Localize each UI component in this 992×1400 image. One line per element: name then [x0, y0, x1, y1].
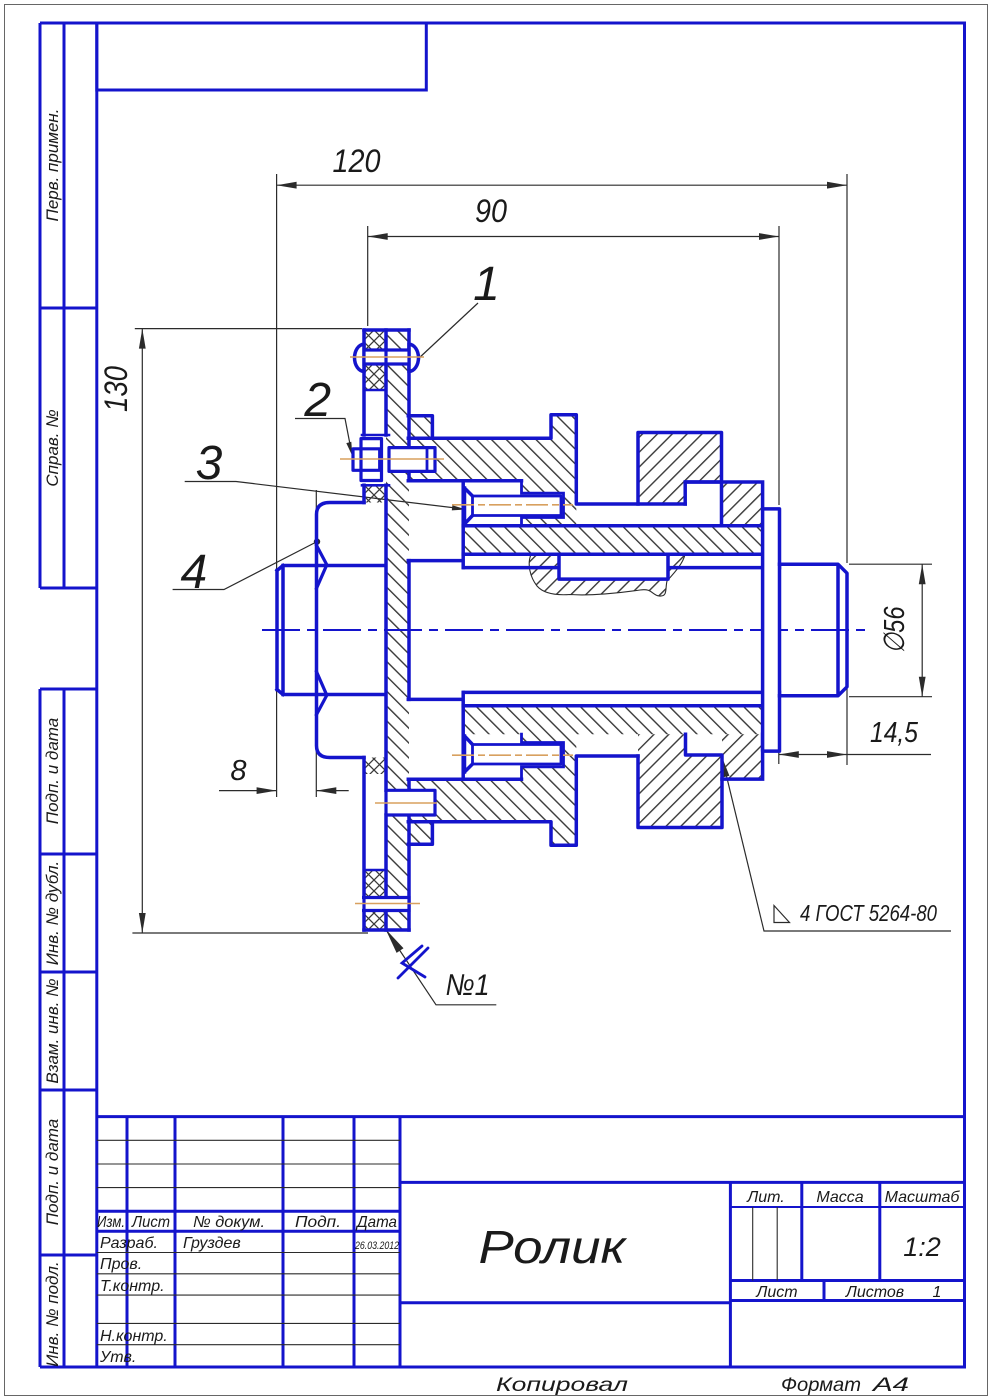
sleeve bottom pocket	[408, 692, 521, 779]
top-left stamp box	[97, 23, 427, 90]
left margin labels	[43, 109, 62, 1367]
svg-text:Подп. и дата: Подп. и дата	[43, 1119, 62, 1225]
leader for position 1	[418, 303, 478, 359]
svg-text:14,5: 14,5	[870, 717, 919, 749]
key	[559, 554, 668, 579]
washer ring at right	[763, 509, 780, 751]
ring block E outline	[685, 482, 762, 526]
svg-text:130: 130	[98, 366, 134, 412]
svg-text:Дата: Дата	[355, 1214, 397, 1231]
bolt 2 top: shaft and nut band	[389, 448, 435, 472]
svg-text:Справ. №: Справ. №	[43, 409, 62, 486]
weld symbol K	[398, 946, 428, 978]
wavy break line	[529, 555, 685, 597]
sleeve upper flange	[408, 416, 432, 439]
svg-text:Копировал: Копировал	[496, 1375, 628, 1396]
svg-text:Лит.: Лит.	[746, 1189, 784, 1206]
svg-text:∅56: ∅56	[879, 606, 911, 654]
svg-text:Листов: Листов	[845, 1284, 904, 1301]
title block texts	[97, 1189, 960, 1396]
sleeve bottom surface and tab	[408, 756, 638, 845]
box Sprav No	[40, 308, 97, 588]
svg-text:Взам. инв. №: Взам. инв. №	[43, 978, 62, 1083]
svg-text:№ докум.: № докум.	[193, 1214, 265, 1231]
svg-text:26.03.2012: 26.03.2012	[354, 1240, 399, 1252]
weld leader to GOST note	[722, 758, 951, 932]
box Inv No podl	[40, 1255, 97, 1367]
svg-text:Груздев: Груздев	[183, 1235, 241, 1252]
rivet top	[355, 344, 364, 371]
box Perv primen	[40, 23, 97, 308]
svg-text:2: 2	[303, 374, 331, 427]
weld leader No1	[386, 929, 497, 1005]
left shaft stub	[277, 566, 385, 695]
disc left plate edges	[362, 330, 366, 930]
left margin column lines	[40, 23, 97, 1367]
tan centerline screw bottom	[452, 754, 573, 756]
svg-text:Перв. примен.: Перв. примен.	[43, 109, 62, 222]
sleeve top surface and tab	[408, 415, 685, 504]
box Podp i data 2	[40, 1090, 97, 1255]
svg-text:Разраб.: Разраб.	[100, 1235, 158, 1252]
svg-text:90: 90	[475, 193, 507, 229]
main axis centerline	[262, 629, 869, 631]
ring block E bottom outline	[722, 734, 763, 779]
tan centerline screw top	[452, 504, 573, 506]
bolt 2 top: hex head	[353, 449, 380, 471]
box Inv No dubl	[40, 854, 97, 972]
svg-text:Лист: Лист	[755, 1284, 797, 1301]
disc right face	[407, 330, 411, 930]
svg-text:Подп. и дата: Подп. и дата	[43, 718, 62, 824]
svg-text:Лист: Лист	[131, 1214, 170, 1231]
svg-text:1: 1	[933, 1284, 942, 1301]
svg-text:4 ГОСТ 5264-80: 4 ГОСТ 5264-80	[800, 900, 937, 926]
tan centerline bolt top	[340, 458, 444, 460]
svg-text:Инв. № дубл.: Инв. № дубл.	[43, 861, 62, 966]
ring block B outline	[638, 433, 722, 505]
leader for position 4	[173, 542, 317, 590]
title block thin lines	[97, 1140, 777, 1344]
svg-text:Т.контр.: Т.контр.	[100, 1278, 165, 1295]
svg-text:Н.контр.: Н.контр.	[100, 1328, 168, 1345]
dimension arrows	[277, 182, 297, 189]
svg-text:Масштаб: Масштаб	[885, 1189, 961, 1206]
svg-text:№1: №1	[446, 969, 490, 1002]
disc plates divider	[384, 330, 388, 930]
box Podp i data 1	[40, 689, 97, 854]
leader for position 2	[295, 419, 352, 453]
svg-text:Подп.: Подп.	[295, 1214, 341, 1231]
screw 3 bottom	[465, 736, 473, 772]
tan centerline rivet bottom	[355, 903, 420, 905]
weld flag triangle	[774, 906, 790, 923]
screw 3 top	[465, 488, 473, 524]
rivet bottom	[362, 898, 409, 911]
sleeve lower flange	[408, 822, 432, 845]
hub outline	[317, 503, 365, 758]
hatching shaft local section at key	[529, 555, 685, 597]
sleeve pocket near disc	[408, 481, 521, 568]
svg-text:8: 8	[230, 755, 246, 787]
bolt hole counterbore lines	[364, 390, 386, 870]
right shaft stub	[780, 564, 848, 696]
hatching ring part (slash)	[638, 433, 763, 828]
hatching disc left plate (cross)	[364, 330, 386, 930]
svg-text:Пров.: Пров.	[100, 1256, 142, 1273]
svg-text:1:2: 1:2	[903, 1232, 941, 1262]
tan centerline rivet top	[350, 356, 424, 358]
leader for position 3	[185, 482, 464, 510]
svg-text:Ролик: Ролик	[479, 1221, 629, 1273]
svg-text:Формат: Формат	[781, 1375, 861, 1396]
svg-text:1: 1	[473, 258, 500, 311]
ring block B bottom outline	[638, 734, 722, 827]
tan centerline bolt bottom	[375, 802, 437, 804]
svg-text:Изм.: Изм.	[97, 1214, 125, 1231]
svg-text:Утв.: Утв.	[99, 1349, 136, 1366]
svg-text:3: 3	[196, 437, 223, 490]
sleeve bore walls top	[463, 526, 762, 554]
svg-text:Инв. № подл.: Инв. № подл.	[43, 1261, 62, 1367]
svg-text:А4: А4	[871, 1375, 909, 1396]
box Vzam inv No	[40, 972, 97, 1090]
title block main lines	[97, 1117, 965, 1367]
hatching sleeve part (backslash)	[386, 330, 763, 930]
sleeve bore walls bottom	[463, 692, 779, 705]
bolt 2 top: washer	[361, 439, 382, 481]
svg-text:Масса: Масса	[816, 1189, 863, 1206]
svg-text:120: 120	[333, 143, 381, 179]
disc top and bottom edges	[364, 330, 409, 930]
shaft surface top	[464, 566, 780, 570]
extension and dimension thin lines	[132, 174, 932, 933]
bolt 2 bottom: shaft and nut band	[386, 790, 435, 815]
svg-text:4: 4	[180, 546, 207, 599]
